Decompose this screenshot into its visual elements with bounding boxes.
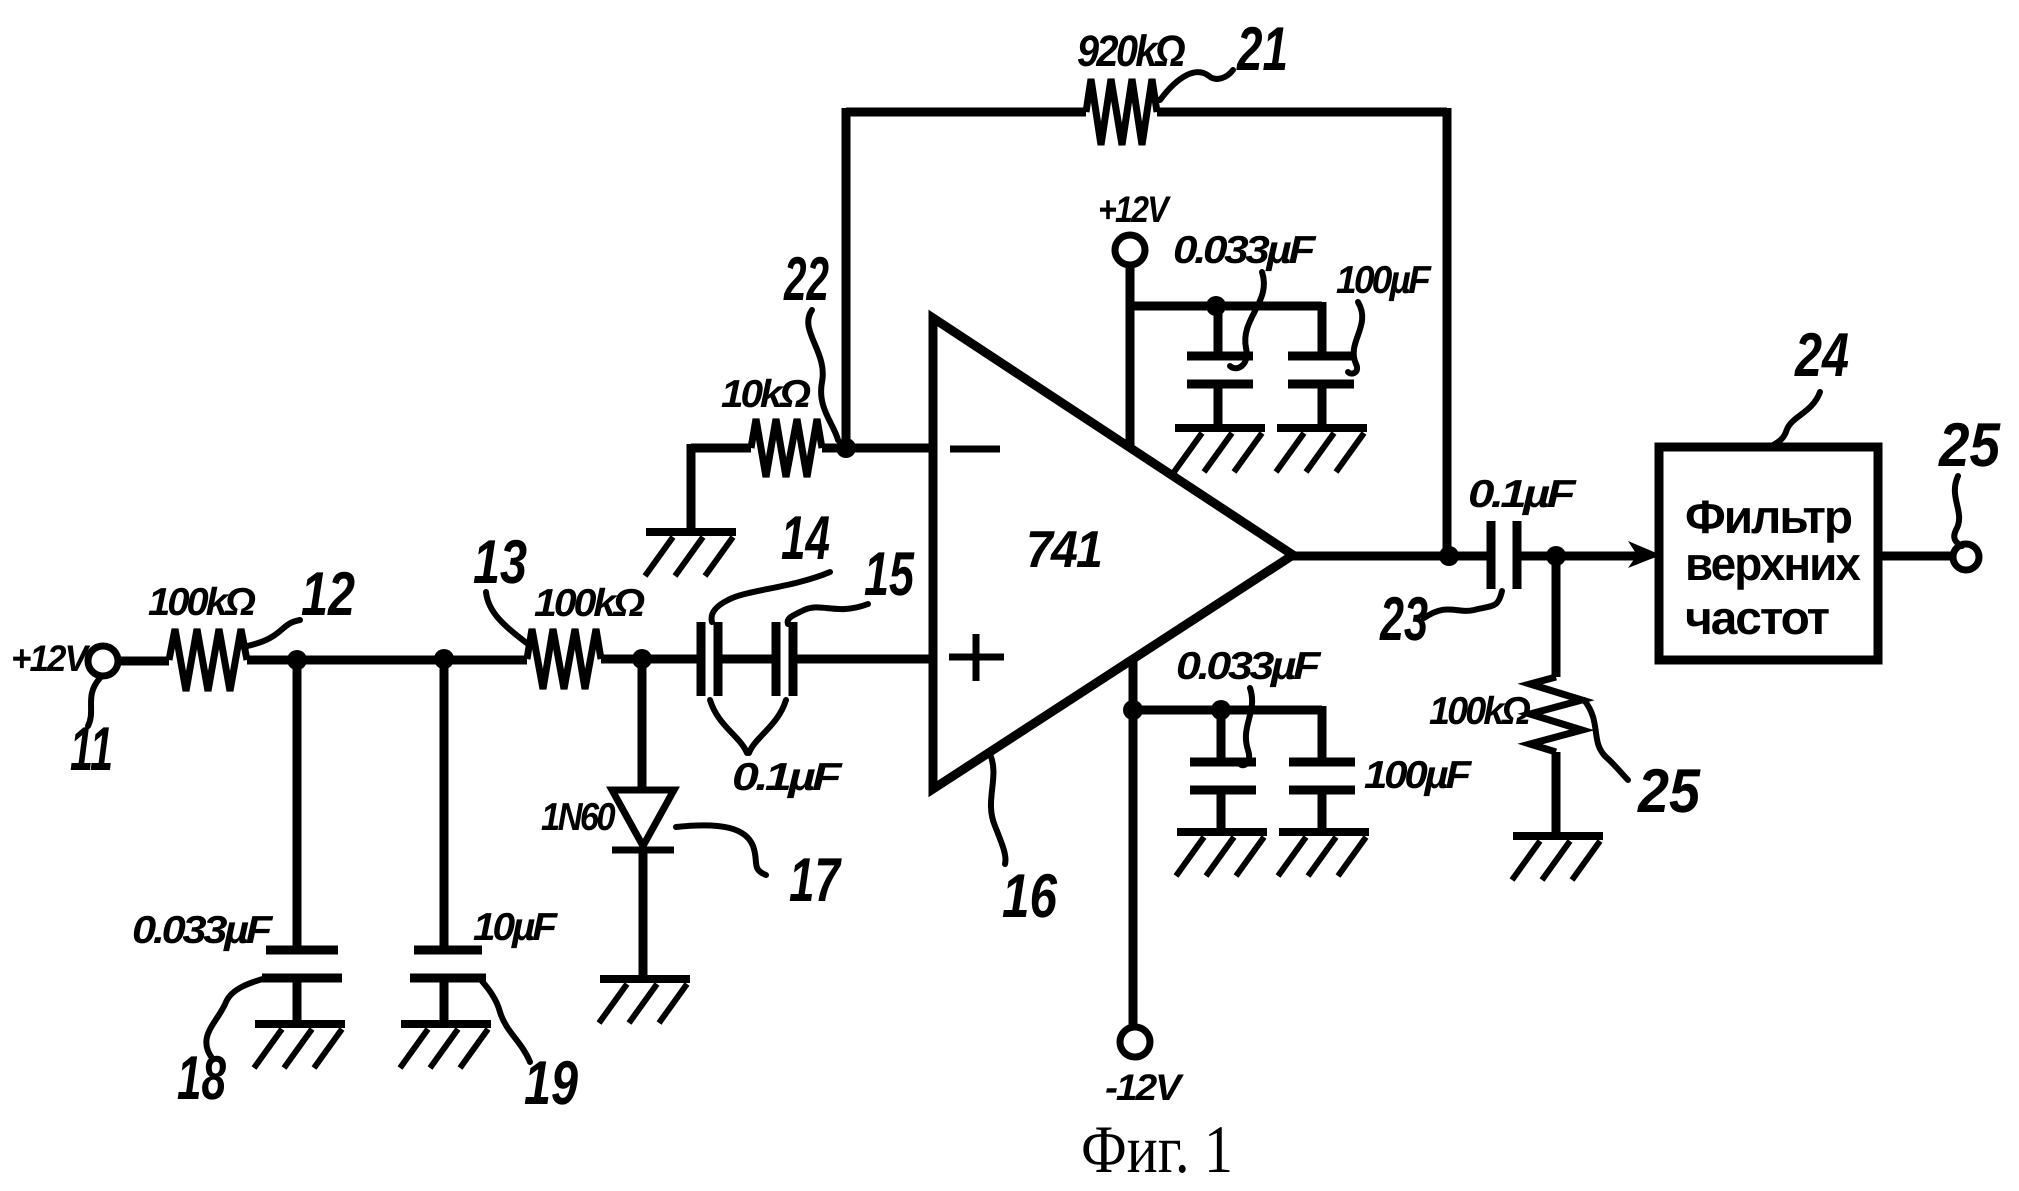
- leader label 23: [1424, 591, 1502, 618]
- capacitor C14 0.1uF: [701, 622, 718, 696]
- wire R22 to op-amp: [822, 444, 933, 453]
- resistor R22 10k&#937;: [751, 419, 822, 477]
- terminal -12V circle: [1120, 1027, 1150, 1057]
- wire -12V to capacitors: [1133, 706, 1322, 715]
- svg-text:Фильтр: Фильтр: [1685, 490, 1851, 543]
- leader label 12: [243, 620, 300, 647]
- capacitor C_D stem bottom: [1318, 790, 1327, 832]
- ground G5 below C_A: [1174, 428, 1265, 472]
- wire C18 to ground: [293, 978, 302, 1022]
- diode D17 cathode bar: [612, 847, 674, 854]
- leader label 15: [788, 604, 868, 624]
- label C19 value 10&#181;F: [473, 906, 558, 949]
- capacitor C23 0.1uF plates: [1491, 521, 1517, 589]
- diode D17 1N60: [612, 790, 674, 846]
- svg-text:0.033µF: 0.033µF: [1176, 645, 1322, 688]
- label C18 value 0.033&#181;F: [132, 909, 274, 952]
- wire +12V rail to op-amp: [1126, 306, 1135, 449]
- label C_D value 100&#181;F: [1364, 754, 1472, 797]
- capacitor C19 10uF plates: [410, 950, 486, 978]
- capacitor C_C stem bottom: [1217, 790, 1226, 832]
- wire R25 top stem: [1552, 556, 1561, 677]
- svg-text:24: 24: [1794, 321, 1849, 390]
- wire -12V rail: [1129, 658, 1138, 1028]
- svg-text:+12V: +12V: [1098, 189, 1172, 230]
- capacitor C_A stem bottom: [1214, 384, 1223, 428]
- ground G8 below C_D: [1278, 832, 1369, 876]
- label -12V supply: [1105, 1067, 1185, 1108]
- op-amp U16 triangle: [933, 318, 1293, 789]
- resistor R25 100k&#937;: [1530, 677, 1582, 752]
- label 11: [70, 715, 113, 784]
- capacitor C_B 100uF stem top: [1318, 302, 1327, 356]
- wire feedback right vertical: [1443, 108, 1452, 556]
- leader C14 value: [710, 700, 747, 753]
- label 13: [473, 528, 527, 597]
- svg-text:18: 18: [177, 1044, 226, 1113]
- leader C_C value: [1240, 688, 1252, 765]
- terminal input +12V circle: [88, 646, 118, 676]
- label 21: [1236, 15, 1288, 84]
- wire op-amp output: [1290, 552, 1491, 561]
- label 25 at output: [1938, 411, 2001, 480]
- label 23: [1379, 585, 1428, 654]
- wire diode to ground: [639, 850, 648, 977]
- leader label 21: [1160, 70, 1233, 100]
- svg-text:19: 19: [524, 1049, 578, 1118]
- op-amp inverting input minus sign: [950, 446, 1000, 453]
- wire C15 to op-amp plus input: [793, 655, 933, 664]
- leader C_B value: [1348, 302, 1362, 374]
- svg-text:100kΩ: 100kΩ: [148, 581, 256, 624]
- node output feedback junction: [1439, 546, 1459, 566]
- wire R22 left segment: [691, 444, 751, 453]
- ground G2 below diode: [599, 979, 690, 1023]
- leader label 16: [990, 754, 1006, 864]
- wire input terminal to R12: [117, 657, 169, 666]
- svg-text:100kΩ: 100kΩ: [1429, 690, 1530, 733]
- ground G1 below R22: [645, 532, 736, 576]
- label R21 value 920k&#937;: [1077, 27, 1185, 76]
- ground G6 below C_B: [1276, 428, 1367, 472]
- leader label 14: [712, 572, 830, 622]
- node C_C junction: [1211, 700, 1231, 720]
- label C14/C15 value 0.1&#181;F: [732, 756, 843, 799]
- leader label 17: [676, 825, 766, 875]
- svg-text:100kΩ: 100kΩ: [534, 582, 645, 625]
- capacitor C_D plates: [1289, 762, 1355, 790]
- ground G7 below C_C: [1176, 832, 1267, 876]
- capacitor C_D 100uF stem top: [1318, 706, 1327, 762]
- svg-text:0.1µF: 0.1µF: [1468, 473, 1577, 516]
- label 24: [1794, 321, 1849, 390]
- svg-text:12: 12: [301, 560, 355, 629]
- wire R22 ground stub: [687, 444, 696, 530]
- wire filter box to output terminal: [1878, 552, 1953, 561]
- leader label 19: [481, 980, 530, 1062]
- svg-text:23: 23: [1379, 585, 1428, 654]
- label 14: [781, 504, 830, 573]
- node diode junction: [632, 649, 652, 669]
- node output R25 junction: [1546, 546, 1566, 566]
- leader label 25 resistor: [1584, 700, 1628, 780]
- label R13 value 100k&#937;: [534, 582, 645, 625]
- label 15: [864, 540, 915, 609]
- wire R25 bottom stem: [1552, 752, 1561, 834]
- svg-text:частот: частот: [1685, 591, 1829, 644]
- capacitor C_B plates: [1288, 356, 1354, 384]
- leader label 24: [1770, 392, 1820, 447]
- capacitor C_A plates: [1187, 356, 1253, 384]
- filter block 24 box: [1659, 447, 1878, 660]
- wire node B down to C19: [440, 655, 449, 950]
- svg-text:100µF: 100µF: [1364, 754, 1472, 797]
- svg-text:21: 21: [1236, 15, 1288, 84]
- label +12V input: [11, 638, 91, 679]
- svg-text:0.033µF: 0.033µF: [1173, 229, 1317, 272]
- svg-text:10kΩ: 10kΩ: [721, 373, 811, 416]
- wire node A down to C18: [293, 656, 302, 950]
- op-amp non-inverting input plus sign: [949, 634, 1004, 681]
- leader label 13: [486, 592, 528, 644]
- leader C_A value: [1230, 272, 1264, 368]
- terminal +12V circle: [1115, 235, 1145, 265]
- svg-text:920kΩ: 920kΩ: [1077, 27, 1185, 76]
- filter block text line 2: [1685, 537, 1861, 590]
- label C_C value 0.033&#181;F: [1176, 645, 1322, 688]
- label +12V supply: [1098, 189, 1172, 230]
- leader label 22: [808, 310, 838, 440]
- svg-text:25: 25: [1637, 757, 1701, 826]
- label R12 value 100k&#937;: [148, 581, 256, 624]
- svg-text:17: 17: [789, 846, 842, 915]
- op-amp U16 label 741: [1026, 521, 1101, 579]
- node junction feedback/inverting input: [836, 438, 856, 458]
- arrowhead into filter: [1628, 541, 1661, 568]
- resistor R13 100k&#937;: [527, 629, 601, 689]
- svg-text:0.1µF: 0.1µF: [732, 756, 843, 799]
- svg-text:+12V: +12V: [11, 638, 91, 679]
- label D17 value 1N60: [541, 796, 616, 839]
- svg-text:25: 25: [1938, 411, 2001, 480]
- wire feedback top right segment: [1157, 108, 1447, 117]
- label C_A value 0.033&#181;F: [1173, 229, 1317, 272]
- ground G4 below C19: [400, 1024, 491, 1068]
- resistor R12 100k&#937;: [169, 629, 247, 691]
- leader C15 value: [749, 700, 786, 753]
- node +12V cap junction: [1206, 296, 1226, 316]
- svg-text:верхних: верхних: [1685, 537, 1861, 590]
- capacitor C18 0.033uF plates: [262, 950, 342, 978]
- leader label 11: [88, 678, 100, 726]
- filter block text line 1: [1685, 490, 1851, 543]
- svg-text:Фиг. 1: Фиг. 1: [1081, 1111, 1233, 1187]
- wire R13 to C14: [601, 655, 701, 664]
- ground G9 below R25: [1512, 836, 1603, 880]
- capacitor C_A 0.033uF stem top: [1214, 306, 1223, 356]
- capacitor C_C 0.033uF stem top: [1217, 710, 1226, 762]
- svg-text:741: 741: [1026, 521, 1101, 579]
- label 22: [783, 245, 829, 314]
- ground G3 below C18: [254, 1024, 345, 1068]
- label C23 value 0.1&#181;F: [1468, 473, 1577, 516]
- wire feedback top left segment: [846, 108, 1086, 117]
- filter block text line 3: [1685, 591, 1829, 644]
- wire C23 to filter box: [1517, 552, 1640, 561]
- svg-text:1N60: 1N60: [541, 796, 616, 839]
- capacitor C_B stem bottom: [1318, 384, 1327, 428]
- svg-text:13: 13: [473, 528, 527, 597]
- svg-text:0.033µF: 0.033µF: [132, 909, 274, 952]
- svg-text:-12V: -12V: [1105, 1067, 1185, 1108]
- svg-text:16: 16: [1002, 862, 1057, 931]
- leader label 25 output: [1954, 476, 1962, 546]
- node input junction B: [434, 649, 454, 669]
- label C_B value 100&#181;F: [1336, 259, 1432, 302]
- resistor R21 920k&#937;: [1086, 79, 1157, 145]
- wire C19 to ground: [440, 978, 449, 1022]
- label R25 value 100k&#937;: [1429, 690, 1530, 733]
- svg-text:100µF: 100µF: [1336, 259, 1432, 302]
- wire R12 to R13: [247, 656, 527, 665]
- label 18: [177, 1044, 226, 1113]
- wire diode junction down: [638, 655, 647, 790]
- svg-text:10µF: 10µF: [473, 906, 558, 949]
- label 16: [1002, 862, 1057, 931]
- label 19: [524, 1049, 578, 1118]
- label 17: [789, 846, 842, 915]
- wire C14 to C15: [718, 655, 776, 664]
- capacitor C_C plates: [1190, 762, 1256, 790]
- label 25 at resistor: [1637, 757, 1701, 826]
- label R22 value 10k&#937;: [721, 373, 811, 416]
- leader label 18: [206, 978, 266, 1058]
- svg-text:22: 22: [783, 245, 829, 314]
- wire feedback left vertical: [842, 108, 851, 448]
- figure caption &#1060;&#1080;&#1075;. 1: [1081, 1111, 1233, 1187]
- capacitor C15 0.1uF: [776, 622, 793, 696]
- terminal output circle: [1953, 544, 1979, 570]
- wire +12V stem: [1126, 264, 1135, 310]
- node -12V cap junction: [1123, 700, 1143, 720]
- svg-text:15: 15: [864, 540, 915, 609]
- svg-text:14: 14: [781, 504, 830, 573]
- wire +12V to capacitors: [1126, 302, 1322, 311]
- node input junction A: [287, 650, 307, 670]
- label 12: [301, 560, 355, 629]
